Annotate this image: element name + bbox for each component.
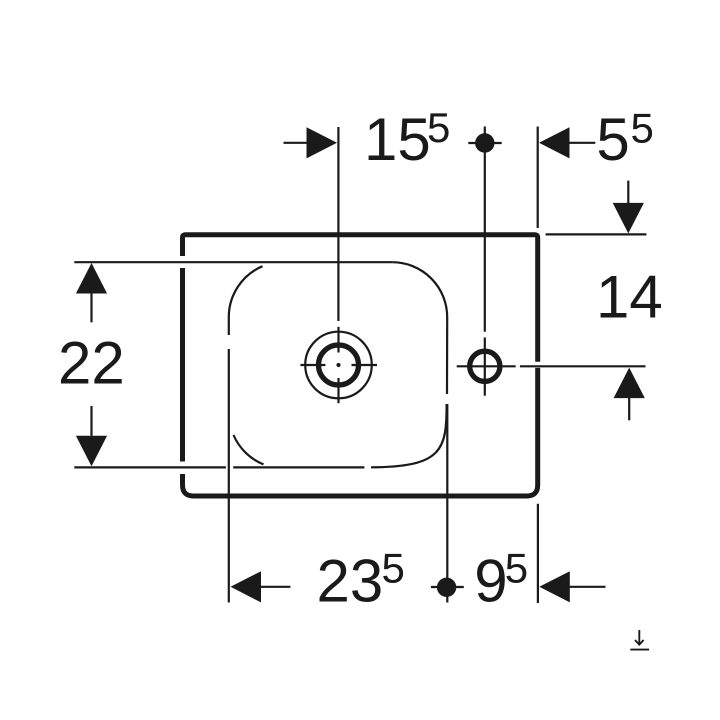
dim 9.5 arrow line: [569, 586, 605, 588]
drain inner thick ring: [319, 345, 359, 385]
dim 9.5 arrowhead pointing left: [539, 571, 570, 602]
dim 14 bottom extension line (tap centerline to right): [520, 365, 646, 367]
dim 5.5 arrowhead pointing left: [539, 127, 570, 158]
dim 14 up arrow tail: [628, 398, 630, 420]
bowl outline (top-left corner arc + left edge): [229, 266, 263, 335]
svg-text:5: 5: [596, 106, 629, 173]
dim 14 arrowhead pointing up: [614, 368, 645, 399]
tap hole horizontal centerline: [457, 365, 516, 367]
extension line from drain up: [337, 127, 339, 321]
dim 22 bottom extension line: [74, 466, 364, 468]
tap hole vertical centerline: [484, 337, 486, 395]
download-to-bottom icon arrow stem: [638, 630, 640, 645]
dim 22 arrowhead pointing down: [76, 436, 107, 467]
svg-text:22: 22: [58, 330, 125, 397]
dim 14 top extension line: [546, 233, 647, 235]
dim 15.5 end dot: [475, 133, 494, 152]
bowl outline (bottom-left corner arc): [234, 435, 264, 464]
dim 22 arrowhead pointing up: [76, 263, 107, 294]
dim 15.5 arrowhead pointing right: [307, 127, 338, 158]
dim 14 arrowhead pointing down: [613, 203, 644, 234]
dim 14 down arrow tail: [627, 181, 629, 204]
extension line from tap hole up to dot: [484, 127, 486, 332]
dim 22 down arrow tail: [90, 406, 92, 436]
svg-text:5: 5: [382, 545, 405, 592]
download-to-bottom icon baseline: [630, 649, 649, 651]
basin rim outline (top + upper right edge): [183, 235, 538, 362]
svg-text:14: 14: [596, 263, 663, 330]
dim 23.5 dot tick line: [431, 586, 464, 588]
svg-text:15: 15: [364, 106, 431, 173]
dim 22 top extension line: [74, 261, 392, 263]
dim 22 up arrow tail: [90, 294, 92, 323]
extension line right edge plane (bottom): [537, 504, 539, 603]
dim 23.5 end dot: [437, 578, 456, 597]
tap hole circle: [470, 351, 500, 381]
extension line bowl right edge down: [446, 404, 448, 603]
dim 23.5 arrow line: [261, 586, 291, 588]
extension line bowl left edge down: [228, 349, 230, 603]
basin rim outline (lower right edge + bottom + bottom-left corner): [183, 368, 538, 496]
extension line right edge plane (top): [537, 127, 539, 229]
dim 23.5 arrowhead pointing left: [231, 571, 262, 602]
svg-text:5: 5: [427, 104, 450, 151]
dim 15.5 arrow line (left): [284, 142, 308, 144]
drain outer circle: [305, 332, 372, 399]
dim 15.5 dot tick line: [468, 142, 501, 144]
dim 5.5 arrow line (right): [569, 142, 595, 144]
download-to-bottom icon arrow chevron: [635, 640, 644, 645]
svg-text:5: 5: [505, 545, 528, 592]
drain center dot: [336, 363, 340, 367]
basin rim outline (left edge middle segment): [180, 268, 185, 462]
drain crosshair top tick: [337, 327, 339, 353]
bowl outline (bottom-right corner arc): [371, 404, 447, 467]
drain crosshair left tick: [300, 364, 325, 366]
bowl outline (top edge + top-right corner + right edge): [392, 262, 447, 394]
drain crosshair right tick: [352, 364, 378, 366]
drain crosshair bottom tick: [337, 378, 339, 403]
svg-text:5: 5: [631, 104, 654, 151]
svg-text:9: 9: [474, 547, 507, 614]
svg-text:23: 23: [317, 547, 384, 614]
